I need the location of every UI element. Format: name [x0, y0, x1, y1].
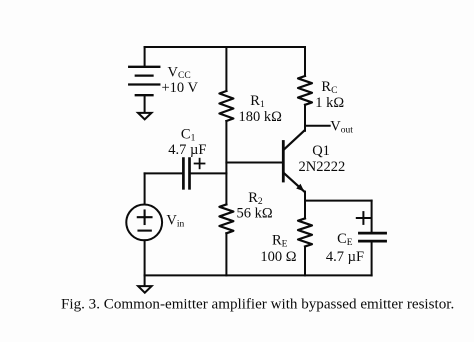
- label 1 kOhm: [315, 95, 344, 111]
- resistor RC: [298, 76, 312, 105]
- svg-text:100 Ω: 100 Ω: [260, 249, 296, 265]
- svg-text:4.7 µF: 4.7 µF: [326, 249, 364, 265]
- svg-text:4.7 µF: 4.7 µF: [168, 142, 206, 158]
- wire Vout stub: [305, 125, 330, 127]
- label C1: [181, 127, 196, 144]
- svg-text:Fig. 3. Common-emitter amplifi: Fig. 3. Common-emitter amplifier with by…: [61, 297, 454, 313]
- wire RC top: [304, 47, 306, 76]
- label Vout: [330, 118, 353, 135]
- wire R1-R2 column: [225, 121, 227, 204]
- wire R1 top: [225, 47, 227, 91]
- label +10 V: [162, 80, 199, 96]
- capacitor CE: [359, 233, 385, 241]
- svg-text:56 kΩ: 56 kΩ: [237, 206, 273, 222]
- label R1: [250, 93, 265, 110]
- label CE: [337, 231, 353, 248]
- polarity plus CE: [357, 212, 370, 224]
- wire RC bottom to collector node: [304, 105, 306, 131]
- svg-text:180 kΩ: 180 kΩ: [239, 109, 283, 125]
- label Q1: [312, 143, 330, 159]
- svg-text:2N2222: 2N2222: [299, 159, 346, 175]
- wire RE bottom: [304, 247, 306, 276]
- svg-text:VCC: VCC: [168, 65, 191, 82]
- resistor RE: [298, 218, 312, 246]
- label 56 kOhm: [237, 206, 273, 222]
- svg-text:Vin: Vin: [166, 212, 184, 229]
- wire CE top: [371, 201, 373, 234]
- label RC: [321, 79, 337, 96]
- ground battery: [138, 95, 152, 119]
- wire RE top: [304, 201, 306, 219]
- label C1 value 4.7 uF: [168, 142, 206, 158]
- svg-text:1 kΩ: 1 kΩ: [315, 95, 344, 111]
- svg-text:Q1: Q1: [312, 143, 330, 159]
- label 2N2222: [299, 159, 346, 175]
- capacitor C1: [183, 159, 189, 189]
- polarity plus C1: [195, 159, 205, 169]
- wire base: [226, 162, 283, 164]
- svg-text:RE: RE: [272, 233, 288, 250]
- label 100 Ohm: [260, 249, 296, 265]
- wire Vin bottom: [144, 240, 146, 275]
- label RE: [272, 233, 288, 250]
- wire emitter: [304, 192, 306, 201]
- svg-text:CE: CE: [337, 231, 353, 248]
- wire battery to top rail: [144, 47, 146, 67]
- wire CE bottom: [371, 241, 373, 275]
- label R2: [248, 190, 263, 207]
- label 180 kOhm: [239, 109, 283, 125]
- label Vin: [166, 212, 184, 229]
- svg-text:RC: RC: [321, 79, 337, 96]
- wire Vin top: [144, 173, 146, 204]
- svg-text:R1: R1: [250, 93, 265, 110]
- resistor R1: [219, 91, 233, 121]
- svg-text:+10 V: +10 V: [162, 80, 199, 96]
- resistor R2: [219, 204, 233, 233]
- wire emitter node line: [305, 200, 372, 202]
- transistor Q1: [283, 130, 304, 191]
- wire R2 bottom: [225, 233, 227, 275]
- wire top rail: [145, 46, 305, 48]
- wire Vin to C1: [145, 172, 182, 174]
- label CE value 4.7 uF: [326, 249, 364, 265]
- wire C1 to base column: [191, 172, 227, 174]
- source Vin: [126, 205, 162, 241]
- label VCC: [168, 65, 191, 82]
- battery VCC: [129, 67, 159, 95]
- svg-text:R2: R2: [248, 190, 263, 207]
- wire bottom rail: [145, 274, 372, 276]
- caption Fig. 3: [61, 297, 454, 313]
- ground bottom: [138, 275, 152, 292]
- svg-text:Vout: Vout: [330, 118, 353, 135]
